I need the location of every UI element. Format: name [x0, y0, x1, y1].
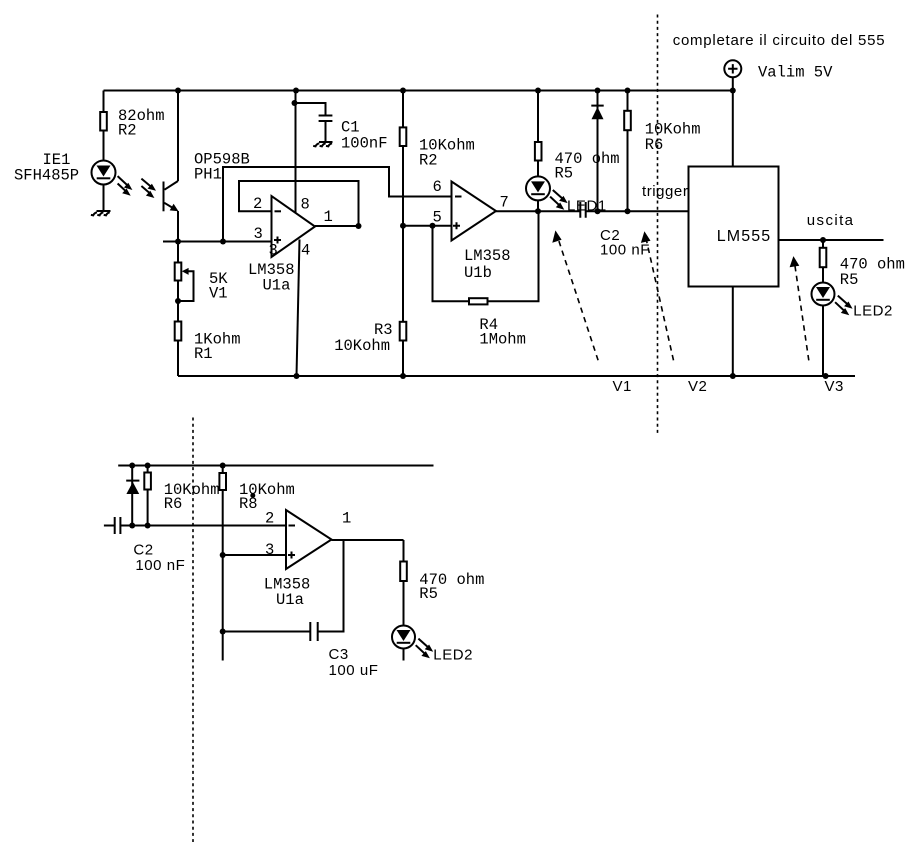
wire U1a pin8 to rail — [295, 91, 297, 213]
junction R6a at trigger wire — [625, 208, 631, 214]
svg-text:100 uF: 100 uF — [329, 662, 379, 679]
resistor R5c 470ohm — [820, 240, 827, 376]
svg-text:LM555: LM555 — [717, 228, 771, 245]
diode D1 — [591, 91, 603, 212]
ground below C1 — [313, 142, 332, 146]
svg-text:4: 4 — [301, 242, 310, 260]
junction on rail at PH1 collector — [175, 88, 181, 94]
junction pin3 wire to U1b pin6 wire — [220, 239, 226, 245]
junction D1 at trigger wire — [595, 208, 601, 214]
resistor R4 1Mohm — [469, 298, 488, 304]
svg-text:V1: V1 — [613, 378, 632, 395]
wire LM555 output uscita — [779, 239, 884, 241]
svg-text:100 nF: 100 nF — [135, 557, 185, 574]
svg-text:8: 8 — [301, 196, 310, 214]
wire U1a output — [315, 225, 359, 227]
capacitor C3 100uF — [310, 622, 317, 641]
wire R5a branch — [537, 91, 539, 212]
junction U1a output — [356, 223, 362, 229]
junction on rail at Valim — [730, 88, 736, 94]
LED LED2a — [812, 283, 835, 306]
svg-text:R8: R8 — [239, 495, 258, 513]
junction on rail at R2b — [400, 88, 406, 94]
dashed probe arrow V3 — [790, 256, 809, 360]
junction R6b at pin2 wire — [145, 523, 151, 529]
svg-text:uscita: uscita — [807, 212, 855, 229]
svg-text:R2: R2 — [118, 122, 137, 140]
op-amp U1a — [272, 196, 316, 257]
power terminal Valim — [724, 60, 741, 166]
svg-text:V1: V1 — [209, 285, 228, 303]
junction PH1 emitter on pin3 wire — [175, 239, 181, 245]
svg-text:2: 2 — [265, 510, 274, 528]
potentiometer V1 5K — [175, 242, 194, 322]
LED LED1 — [526, 176, 550, 200]
svg-text:LM358: LM358 — [464, 247, 511, 265]
wire left branch through R2 and IE1 — [103, 91, 105, 212]
wire U1a pin4 to ground rail — [297, 240, 300, 377]
svg-text:completare il circuito del 555: completare il circuito del 555 — [673, 32, 886, 49]
resistor R2 82ohm — [100, 112, 107, 131]
junction on rail at R6a — [625, 88, 631, 94]
op-amp U1b — [452, 182, 497, 241]
svg-text:1Mohm: 1Mohm — [479, 331, 526, 349]
svg-text:SFH485P: SFH485P — [14, 166, 79, 184]
resistor R6a 10Kohm — [624, 91, 631, 212]
wire U1a2 output — [332, 539, 404, 541]
IC LM555 box — [689, 167, 779, 287]
junction C1 tap — [292, 100, 298, 106]
svg-text:C2: C2 — [133, 542, 153, 559]
light arrow from LED1 (2) — [550, 197, 564, 210]
wire bottom ground rail — [178, 375, 855, 377]
wire output down to R5b — [403, 540, 405, 661]
svg-text:R6: R6 — [164, 495, 183, 513]
wire U1a feedback to pin2 — [239, 181, 359, 226]
wire center branch R2b/R3 — [402, 91, 404, 377]
light arrow from LED2b (2) — [416, 645, 430, 658]
resistor R5a 470ohm — [535, 142, 542, 161]
junction R8 branch at C3 feedback — [220, 629, 226, 635]
resistor R6b 10Kohm — [144, 466, 151, 526]
dashed probe arrow V2 — [641, 231, 674, 360]
svg-text:R5: R5 — [555, 165, 574, 183]
wire U1a2 pin3 — [223, 554, 286, 556]
junction D2 at pin2 wire — [129, 523, 135, 529]
svg-text:Valim 5V: Valim 5V — [758, 64, 833, 82]
wire supply rail bottom section — [118, 465, 433, 467]
svg-text:V3: V3 — [825, 378, 844, 395]
svg-text:3: 3 — [254, 225, 263, 243]
capacitor C2a 100nF in trigger line — [580, 202, 585, 218]
svg-text:U1a: U1a — [263, 277, 291, 295]
svg-text:100 nF: 100 nF — [600, 242, 650, 259]
LED IE1 SFH485P — [92, 161, 116, 185]
svg-text:PH1: PH1 — [194, 165, 222, 183]
svg-text:7: 7 — [500, 194, 509, 212]
light arrow from IE1 (2) — [118, 184, 131, 196]
junction D2 on rail — [129, 463, 135, 469]
svg-text:LED2: LED2 — [433, 647, 473, 664]
light arrow from LED1 (1) — [553, 190, 568, 203]
wire trigger line into LM555 — [586, 210, 689, 212]
wire feedback branch from output — [318, 540, 344, 632]
op-amp U1a bottom section — [286, 510, 332, 569]
wire node pin3 of U1a — [163, 241, 272, 243]
light arrow from LED2a (1) — [838, 296, 853, 309]
capacitor C2b 100nF — [104, 517, 121, 534]
phototransistor PH1 OP598B — [164, 91, 179, 242]
junction R8 at pin3 wire — [220, 552, 226, 558]
light arrow from LED2b (1) — [418, 639, 433, 652]
svg-text:100nF: 100nF — [341, 135, 388, 153]
wire C2b to U1a2 pin2 — [120, 525, 286, 527]
junction pin5 feedback tap — [430, 223, 436, 229]
stray junction dot near R8 label — [250, 493, 255, 498]
resistor R3 10Kohm — [400, 322, 407, 341]
junction pin5 at center branch — [400, 223, 406, 229]
junction LED1 at trigger wire — [535, 208, 541, 214]
light arrow into PH1 (2) — [141, 186, 154, 198]
dashed separator line bottom — [192, 418, 194, 843]
wire U1b pin5 — [403, 225, 452, 227]
dashed probe arrow V1 — [552, 230, 598, 360]
svg-text:R5: R5 — [419, 585, 438, 603]
light arrow into PH1 (1) — [141, 179, 156, 191]
wire U1b output to trigger node — [496, 210, 580, 212]
resistor R8 10Kohm branch — [219, 466, 226, 661]
junction on rail at R5a — [535, 88, 541, 94]
ground below IE1 — [91, 211, 111, 215]
resistor R5b 470ohm — [400, 562, 407, 582]
wire LM555 ground — [732, 287, 734, 377]
LED LED2b — [392, 626, 415, 649]
svg-text:1: 1 — [324, 208, 333, 226]
svg-text:1: 1 — [342, 510, 351, 528]
wire top supply rail — [104, 90, 734, 92]
svg-text:LED2: LED2 — [853, 303, 893, 320]
svg-text:R2: R2 — [419, 151, 438, 169]
wire C3 to R8 branch — [223, 631, 311, 633]
junction on rail at D1 — [595, 88, 601, 94]
diode D2 — [126, 466, 139, 526]
dashed separator line top — [657, 15, 659, 435]
junction R6b on rail — [145, 463, 151, 469]
svg-text:3: 3 — [269, 242, 278, 260]
wire from pin3 node to U1b pin6 — [223, 167, 452, 242]
svg-text:3: 3 — [265, 541, 274, 559]
junction output at R5c — [820, 237, 826, 243]
resistor R2b 10Kohm — [400, 127, 407, 146]
capacitor C1 100nF — [295, 103, 333, 142]
svg-text:10Kohm: 10Kohm — [334, 337, 390, 355]
resistor R1 1Kohm — [175, 322, 182, 377]
svg-text:V2: V2 — [688, 378, 707, 395]
junction wiper of V1 — [175, 298, 181, 304]
light arrow from IE1 (1) — [118, 176, 133, 190]
light arrow from LED2a (2) — [835, 302, 849, 315]
wire U1b feedback loop — [433, 211, 539, 301]
junction on rail at U1a pin8 — [293, 88, 299, 94]
svg-text:R5: R5 — [840, 271, 859, 289]
svg-text:C3: C3 — [329, 646, 349, 663]
junction LED2 on bottom rail — [823, 373, 829, 379]
svg-text:R6: R6 — [645, 136, 664, 154]
svg-text:trigger: trigger — [642, 183, 688, 200]
junction LM555 gnd on bottom rail — [730, 373, 736, 379]
svg-text:R1: R1 — [194, 345, 213, 363]
junction U1a pin4 on bottom rail — [294, 373, 300, 379]
svg-text:U1b: U1b — [464, 264, 492, 282]
svg-text:6: 6 — [433, 178, 442, 196]
svg-text:U1a: U1a — [276, 591, 304, 609]
junction R3 on bottom rail — [400, 373, 406, 379]
junction R8 on rail — [220, 463, 226, 469]
